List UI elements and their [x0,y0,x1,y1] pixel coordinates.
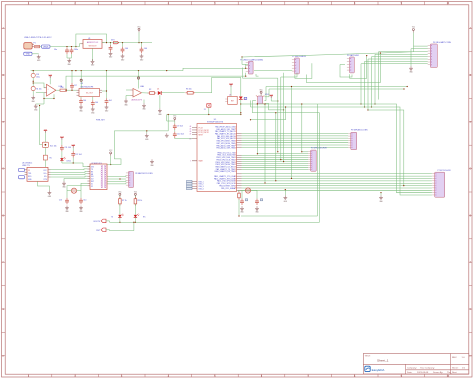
opamp U3 power [80,71,82,89]
net flag GND input [24,52,39,56]
wire 3V3 rail [102,42,152,44]
wire bus B8 [242,167,309,169]
svg-text:RST: RST [91,181,94,183]
wire MCU to crystal [239,191,258,199]
pin header CN2 label [292,56,306,58]
ground C14 [79,206,83,214]
wire rail drop [167,115,175,122]
svg-text:U5: U5 [214,119,216,121]
wire bus B3 [242,157,309,159]
wire R7-LED2 [119,204,121,215]
svg-text:R10: R10 [61,87,64,89]
wire corner net h107b [294,107,432,195]
pin header CN7 label [438,170,452,172]
ground C3 [109,51,113,59]
wire bus ground right [380,192,381,195]
wire bus C0 [242,173,432,175]
wire bus B6 [242,163,309,165]
wire riser vi [291,86,292,179]
wire bus C1 [242,175,432,177]
microcontroller U5 STM32F103C8T6 [190,119,242,192]
power flag VCC hatch [270,95,278,101]
LED1 [60,157,71,163]
svg-text:P1 USB-TO-UART(2.54MM): P1 USB-TO-UART(2.54MM) [240,58,263,61]
net flag 3V3 arrow [111,39,119,43]
svg-text:C17: C17 [74,85,77,87]
svg-text:3V3: 3V3 [91,167,94,169]
wire CN4 vcc [413,33,427,47]
power flag R7 [118,192,122,198]
junction VCC hatch [277,100,278,101]
crystal Y2 [245,188,250,193]
junction R9 [238,215,239,216]
wire Y1 caps [67,191,81,198]
wire net B horizontal [269,88,405,89]
svg-text:TITLE:: TITLE: [365,356,371,358]
wire CN1 loops [65,68,277,91]
pin header CN4 label [433,41,452,44]
wire bus A2 [242,137,349,139]
title block [363,354,469,375]
wire CN1 to CN2 [254,69,292,71]
pin header CN1 label [240,58,263,61]
wire C18-R1 [33,78,34,87]
svg-text:Sheet:: Sheet: [452,367,459,370]
wire U7 pin6 [62,179,87,189]
svg-text:IO2: IO2 [91,179,94,181]
svg-text:IO0: IO0 [91,176,94,178]
wire U6 gnd [38,181,50,190]
op-amp U2A [44,84,63,96]
wire fb ground [36,98,45,104]
svg-text:C10 104: C10 104 [177,133,184,135]
wire bus A3 [242,139,349,141]
svg-text:VBUS: VBUS [43,47,49,49]
wire corner net h110 [368,110,404,186]
wire bottom net3 [241,215,318,217]
wire VBUS rail [40,44,83,47]
pin header CN4 [428,44,438,67]
svg-text:SJ1 10k: SJ1 10k [50,145,57,147]
op-amp U4A power [137,71,139,89]
capacitor C6 [79,97,86,105]
EasyEDA logo [365,366,385,372]
ground bus [285,189,286,195]
svg-text:PWR_KEY: PWR_KEY [96,120,106,122]
ground net flag [31,95,35,103]
net flag box [244,97,247,99]
svg-text:P5 GPIO-EXT-HDR: P5 GPIO-EXT-HDR [311,148,327,150]
svg-text:100u: 100u [36,77,40,79]
wire CN4 pin4 route [374,54,427,104]
svg-text:46: 46 [190,131,192,133]
svg-text:P7 EXT-IO-HDR: P7 EXT-IO-HDR [438,170,452,172]
svg-text:104: 104 [125,48,128,50]
svg-text:R3 10k: R3 10k [186,89,192,91]
power flag col2 [60,136,63,139]
net flag MCU VSS3 [187,185,193,187]
IC U8 [225,96,237,104]
svg-text:USB-C-SMD-TYPE-C-31-M-12: USB-C-SMD-TYPE-C-31-M-12 [24,37,52,39]
svg-text:GND: GND [26,54,31,56]
wire rail drop left [33,70,34,73]
svg-text:RTS: RTS [44,179,47,181]
capacitor C9 [173,124,183,130]
net flag VBUS [42,45,51,49]
svg-text:104: 104 [109,100,112,102]
wire U4 inputs [126,90,131,99]
wire bus C2 [242,178,432,180]
power flag SW1 [260,89,264,96]
pin header CN2 [292,58,299,74]
svg-text:TX: TX [91,169,93,171]
wire h107 [251,100,294,107]
ground CN4 [409,66,413,74]
svg-text:V3: V3 [28,170,30,172]
ground C13 [65,206,69,214]
capacitor C2 [70,48,78,54]
wire h119 [250,106,286,120]
svg-text:P3 UART-HDR: P3 UART-HDR [347,54,360,57]
svg-text:10u: 10u [54,49,57,51]
crystal Y1 [67,188,81,193]
wire col2 b [61,151,63,158]
regulator U1 AMS1117-3.3 [81,38,105,49]
svg-text:BOOT0: BOOT0 [94,221,100,223]
wire U6-U7 4 [51,175,88,178]
wire CN4 gnd pin [411,49,428,66]
ground U6 [48,190,52,198]
wire CN2 loops [295,53,381,83]
capacitor C3 [109,43,113,52]
wire bus C3 [242,180,432,182]
svg-text:C13: C13 [59,199,62,201]
wire C9-C10 [174,130,176,132]
pin header CN6 label [351,128,368,131]
svg-text:AMS1117-3.3: AMS1117-3.3 [87,41,98,44]
svg-text:104: 104 [144,48,147,50]
wire CN4 pin5 route [371,57,428,108]
svg-text:PC13: PC13 [199,127,203,129]
svg-text:VSS_1: VSS_1 [199,181,204,183]
svg-text:Date:: Date: [407,371,413,374]
wire D2 down [240,100,242,115]
resistor R10 [60,87,67,91]
wire CN4 pin6 route [367,59,427,111]
svg-text:R5: R5 [50,158,52,160]
net port X1 [204,103,211,114]
wire bottom net1 [110,221,320,223]
wire col1 b [44,147,46,155]
wire CN4 pin8 route [360,64,427,105]
wire top long net [242,46,413,57]
junction on VBUS rail [66,46,76,47]
wire bus A0 [242,133,349,135]
ground mid net [145,130,149,141]
svg-text:The_Next: The_Next [447,371,457,374]
svg-text:NRST: NRST [199,134,203,136]
wire col3 a [73,148,81,156]
ground C5 [140,54,144,62]
wire U7-P8 4 [107,183,126,184]
IC U8 label [229,95,231,97]
wire mid rail [167,114,241,116]
resistor R1 [31,86,42,90]
wire to op-amp in2 [33,92,44,94]
junctions analog rail [75,70,167,71]
module U7 [87,164,107,190]
wire U7-P8 1 [107,175,126,176]
resistor R3 10k [185,89,195,95]
wire bus B5 [242,161,309,163]
junction cluster bus [73,162,74,163]
wire U7-P8 2 [107,178,126,179]
pin header CN7 [432,172,445,197]
power flag col3 [72,145,75,148]
wire R8-LED3 [134,204,136,215]
wire U6-U7 2 [51,170,88,173]
diode D1 [157,89,161,95]
net flag U6 left 1 [19,168,25,171]
net flag MCU VSS2 [187,183,193,185]
pin header CN1 [246,61,253,74]
wire bus B4 [242,159,309,161]
wire U3 right [102,71,107,99]
ground bus symbol [283,195,287,203]
svg-text:LED1: LED1 [67,161,72,163]
svg-text:R7 1k: R7 1k [122,200,127,202]
wire bus C6 [242,187,432,189]
power flag R8 [134,192,138,198]
svg-text:EasyEDA: EasyEDA [372,368,385,372]
wire col2 a [61,140,63,145]
wire bus A5 [242,144,349,146]
wire op-amp output [56,89,77,91]
capacitor C15 [240,199,248,205]
capacitor C14 [79,198,86,204]
wire riser vf [277,78,278,152]
connector P8 [126,171,134,187]
svg-text:UD-: UD- [44,176,47,178]
wire riser va [257,103,258,154]
wire corner net h104b [318,104,432,193]
capacitor C18 [31,73,40,78]
svg-text:USB-TTL: USB-TTL [22,165,30,167]
wire module vcc [110,156,111,165]
capacitor C17 [70,70,77,89]
fuse F1 [34,42,40,47]
svg-text:44: 44 [190,126,192,128]
IC U3 [77,83,103,96]
wire riser ve [275,112,276,181]
wire U6-U7 1 [51,168,88,171]
svg-text:U3: U3 [81,83,83,85]
wire op-amp feedback [44,93,55,100]
power flag U8 [229,83,232,96]
wire D1 ground branch [159,95,161,108]
capacitor C4 [121,43,128,54]
svg-text:EN: EN [91,174,93,176]
resistor R2 [148,89,157,94]
wire U7 xtal2 [67,186,87,191]
ground C7 [91,107,95,115]
wire bus C7 [242,189,432,191]
wire MCU VBAT stub [192,160,197,162]
pin header CN6 [348,132,356,149]
ground D1 [158,108,162,116]
wire bus B2 [242,155,309,157]
net flag MCU VSS4 [187,187,193,189]
svg-text:LMV358-SOP8: LMV358-SOP8 [131,100,142,102]
wire riser vk [301,103,302,152]
wire SW1 left [252,101,256,113]
resistor R9 [238,191,241,216]
svg-text:PB1_ADC12_IN9_TIM3: PB1_ADC12_IN9_TIM3 [216,147,235,150]
junction bottom [119,222,136,223]
ground U4 area [142,100,146,111]
wire net3 up [317,215,319,217]
wire col3 b [72,158,74,164]
junction U3 right [106,90,107,91]
pin header CN5 label [311,148,327,150]
net flag MCU VSS1 [187,180,193,182]
wire bus C5 [242,185,432,187]
ground module right [150,159,154,167]
resistor R7 [119,195,127,205]
svg-text:X1: X1 [204,109,206,111]
wire W from rail [107,114,169,165]
power flag cluster [173,116,177,124]
power flag col1 [44,129,47,132]
wire cluster to MCU [175,137,192,140]
wire power to rail [138,32,140,42]
svg-text:PA10_USART1_RX_TIM1: PA10_USART1_RX_TIM1 [215,170,235,173]
wire CN1 top [242,57,246,64]
wire cluster bus [62,163,90,167]
svg-text:G: G [2,309,4,311]
svg-text:Your Company: Your Company [420,367,435,370]
svg-text:C11 104: C11 104 [64,147,71,149]
pin header CN5 [308,150,316,171]
wire bus A6 [242,146,349,148]
svg-text:R8 1k: R8 1k [138,200,143,202]
wire U7 xtal1 [81,183,87,190]
wire riser vg [280,77,281,160]
junction SW right [283,109,284,110]
wire bus C4 [242,182,432,184]
wire U7-P8 3 [107,180,126,181]
svg-text:3V3: 3V3 [111,39,114,41]
svg-text:D1: D1 [157,89,159,91]
svg-text:SW1: SW1 [265,94,269,96]
wire analog rail [31,64,249,70]
wire bus B0 [302,151,308,153]
svg-text:2023-08-08: 2023-08-08 [417,372,429,374]
wire riser v7 [319,113,321,223]
junction CN1 pin [245,68,246,69]
connector P8 label [135,172,153,175]
wire R3 up and right [195,78,241,97]
wire CN4 pin3 route [379,52,428,100]
wire col1 c [44,160,46,167]
wire CN4 pin7 route [364,61,428,107]
wire net A left [264,87,266,101]
svg-text:P8 UART-EXT-CONN: P8 UART-EXT-CONN [135,172,153,175]
wire CN3 loops [340,56,367,78]
wire bus A1 [242,135,349,137]
net flag BOOT0 arrow [94,219,110,223]
svg-text:100n: 100n [74,49,78,51]
wire net A horizontal [266,86,408,87]
svg-text:F1: F1 [34,42,36,44]
svg-text:VIN VOUT: VIN VOUT [89,45,97,47]
svg-text:REV:: REV: [452,357,457,359]
label U6 [22,163,33,168]
ground C6 [79,105,83,113]
wire col1 a [44,133,46,142]
svg-text:C14: C14 [83,199,86,201]
label net W [96,120,106,122]
resistor R5 [43,155,51,160]
wire bus A4 [242,142,349,144]
capacitor C1 [54,48,69,54]
LED2 [111,214,124,219]
svg-text:104: 104 [83,100,86,102]
svg-text:C9 104: C9 104 [177,125,183,127]
op-amp U4A [131,85,145,101]
capacitor C16 [255,199,263,205]
svg-text:P6 WIFI-ANT-CONN: P6 WIFI-ANT-CONN [351,128,368,131]
svg-text:RX: RX [91,171,93,173]
wire enable loop [76,34,107,47]
wire h104 [241,103,318,105]
svg-text:R2: R2 [149,89,151,91]
svg-text:X2: X2 [91,186,93,188]
ground U1 [91,59,95,67]
diode D2 [239,97,246,102]
ground cluster hatch [165,133,169,137]
svg-text:RST: RST [231,100,234,102]
capacitor C13 [59,198,69,204]
pin header CN3 label [347,54,360,57]
pin header CN3 [347,57,354,73]
wire LED1 down [61,161,63,163]
wire U6-U7 3 [51,173,88,176]
junction mid rail [208,114,209,115]
svg-text:G: G [470,309,472,311]
svg-text:VSS_2: VSS_2 [199,184,204,186]
svg-text:PC15_OSC32: PC15_OSC32 [199,132,209,134]
svg-text:C12 104: C12 104 [75,154,82,156]
wire riser vh [283,73,284,162]
ground U4 input [124,99,128,107]
connector J1 (USB) [24,43,34,49]
capacitor C7 [91,97,98,107]
power flag CN4 [412,27,416,33]
wire D1 to R3 [162,92,185,94]
svg-text:104: 104 [95,102,98,104]
svg-text:P4 DBG-UART-CONN: P4 DBG-UART-CONN [433,41,452,44]
svg-text:LMV358-SOP8: LMV358-SOP8 [81,86,94,88]
wire riser vc [264,103,265,183]
power flag 3V3 [137,27,141,33]
LED3 [134,214,147,219]
wire bus B9 [242,169,309,171]
capacitor C11 [60,145,71,151]
ground input [37,55,41,63]
svg-text:Sheet_1: Sheet_1 [377,358,389,362]
wire LED3 down [134,218,136,223]
